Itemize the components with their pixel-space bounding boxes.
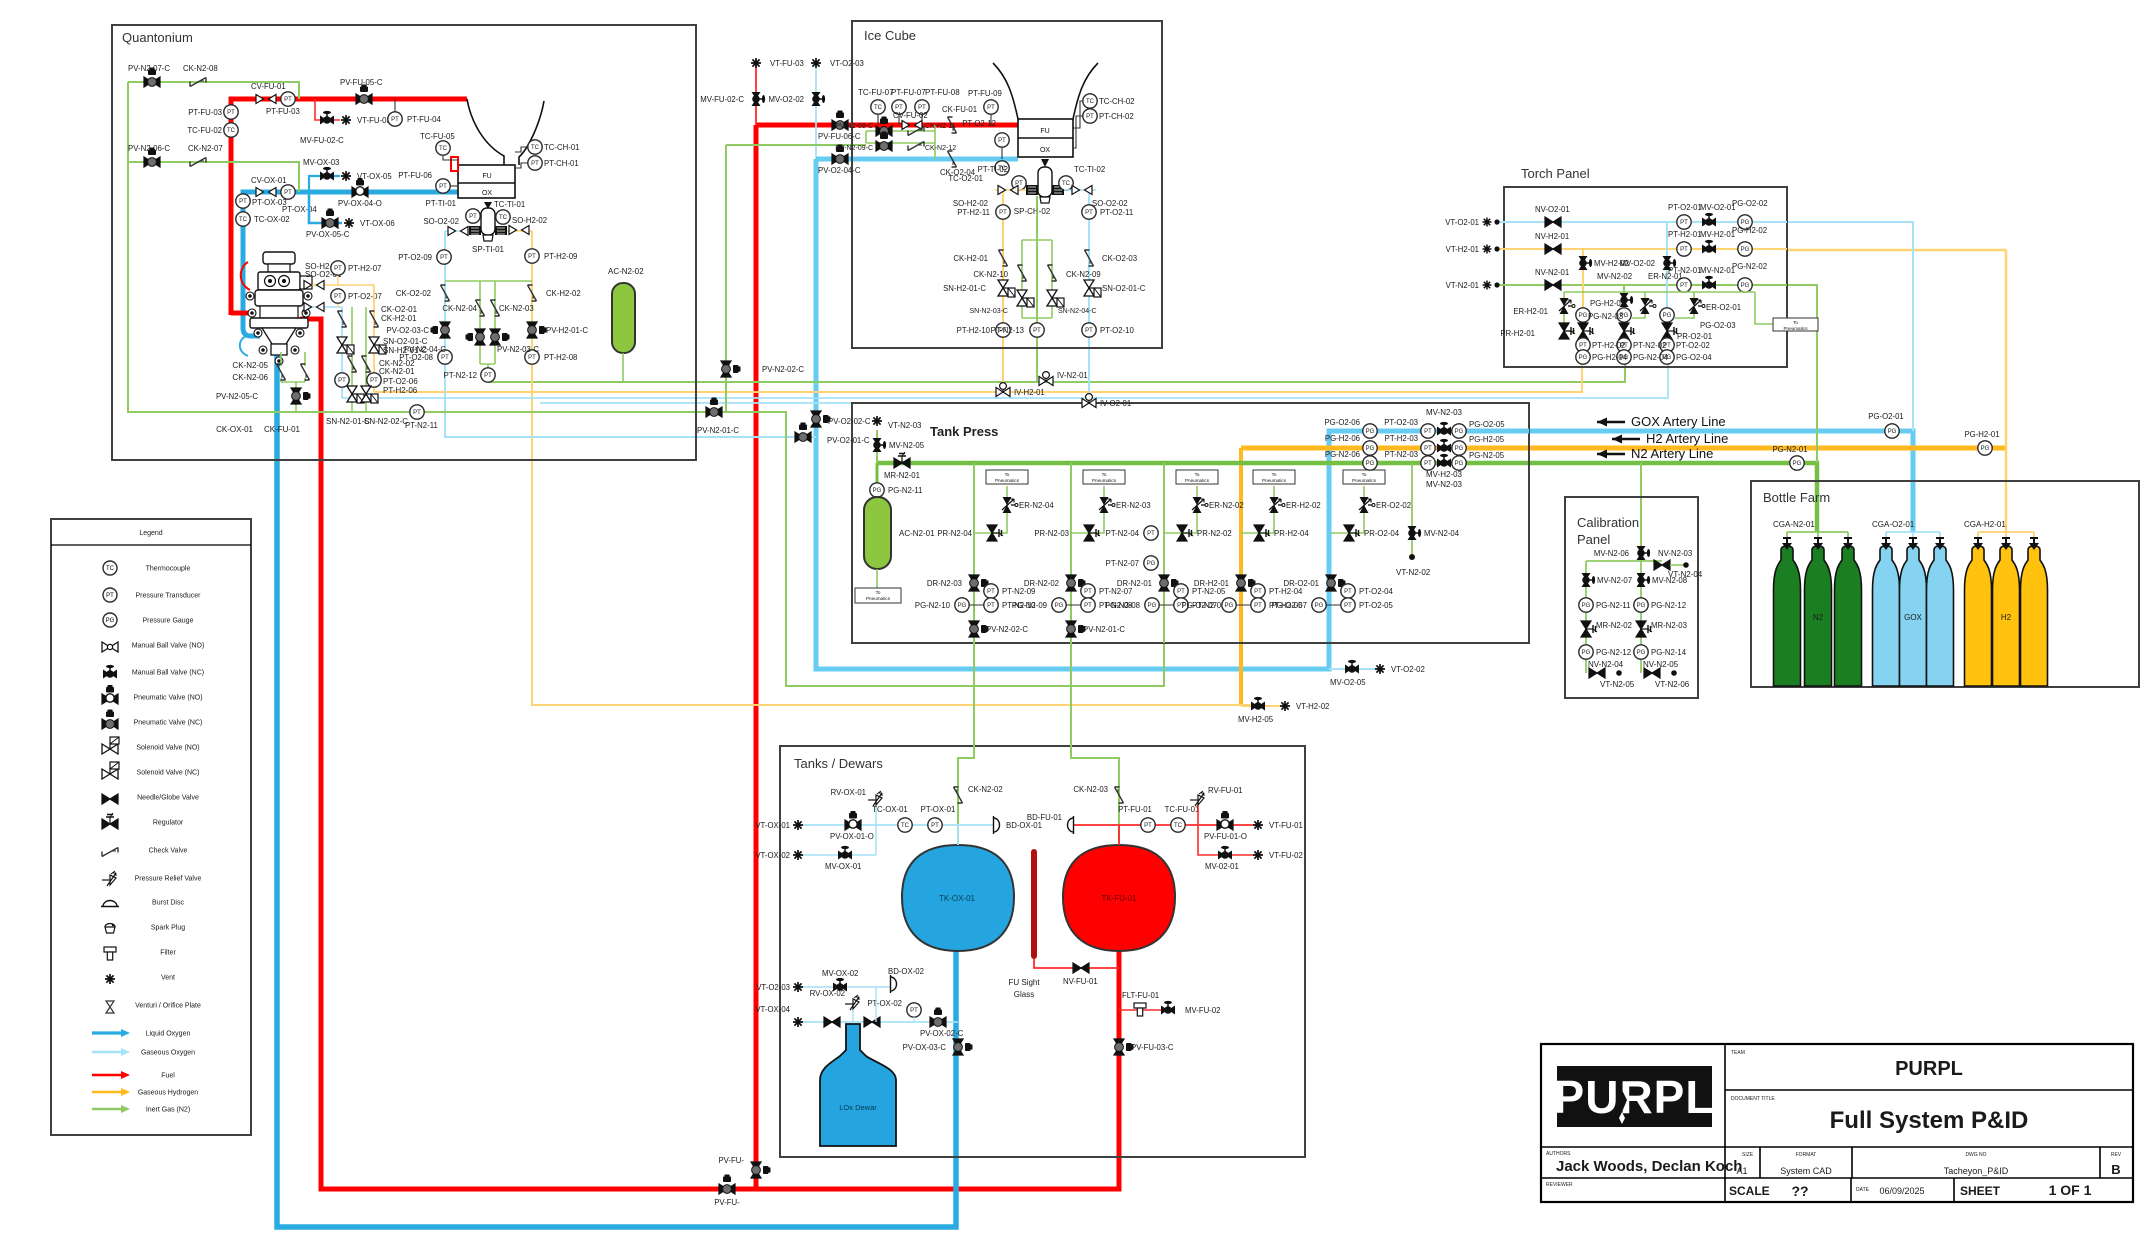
- valve MV-O2-02 torch: [1619, 256, 1676, 270]
- svg-text:PR-O2-04: PR-O2-04: [1364, 529, 1400, 538]
- gauge PG-H2-02: [1732, 226, 1767, 256]
- valve MV-02-01: [1205, 846, 1239, 871]
- vent VT-H2-02: [1280, 701, 1329, 711]
- svg-text:PT: PT: [987, 105, 995, 111]
- svg-text:PT: PT: [284, 97, 292, 103]
- svg-text:MV-O2-02: MV-O2-02: [768, 95, 804, 104]
- transducer PT-H2-04: [1251, 584, 1303, 598]
- check CK-N2-07: [188, 144, 223, 167]
- svg-text:PT: PT: [284, 190, 292, 196]
- svg-text:CK-H2-02: CK-H2-02: [546, 289, 581, 298]
- gauge PG-O2-05: [1452, 420, 1505, 438]
- solenoid SN-N2-02-C: [361, 386, 378, 403]
- svg-text:PT-O2-12: PT-O2-12: [962, 119, 996, 128]
- wire H2 bottle supply: [2005, 250, 2008, 532]
- wire torch O2 row: [1497, 221, 1787, 223]
- enclosure Tank Press: [852, 403, 1529, 643]
- svg-text:PT: PT: [1254, 589, 1262, 595]
- valve MV-N2-02: [1620, 293, 1634, 307]
- valve PV-O2-03-C: [387, 322, 450, 338]
- svg-text:SN-O2-01-C: SN-O2-01-C: [1102, 284, 1146, 293]
- transducer PT-FU-07: [892, 100, 906, 114]
- svg-text:Inert Gas (N2): Inert Gas (N2): [146, 1107, 190, 1114]
- wire AC-N2-01 to pneumatics: [876, 569, 878, 588]
- svg-text:H2 Artery Line: H2 Artery Line: [1646, 431, 1728, 446]
- svg-text:MV-N2-08: MV-N2-08: [1652, 576, 1687, 585]
- valve PV-N2-09-C: [876, 132, 892, 152]
- svg-text:CK-O2-02: CK-O2-02: [396, 289, 431, 298]
- svg-text:CK-H2-01: CK-H2-01: [953, 254, 988, 263]
- solenoid SN-H2-01-C: [943, 280, 1015, 297]
- svg-text:PG: PG: [1793, 461, 1802, 467]
- svg-text:Pneumatics: Pneumatics: [1783, 326, 1808, 331]
- thermocouple TC-CH-02: [1083, 94, 1135, 108]
- legend row Thermocouple: [103, 561, 190, 575]
- gauge PG-N2-05: [1452, 451, 1505, 470]
- transducer PT-FU-09: [968, 89, 1002, 114]
- svg-text:PT: PT: [531, 161, 539, 167]
- check CK-H2-01: [370, 311, 379, 327]
- svg-text:TC: TC: [106, 566, 115, 572]
- svg-text:PT: PT: [528, 355, 536, 361]
- transducer PT-O2-05: [1341, 598, 1394, 612]
- svg-text:CK-N2-01: CK-N2-01: [379, 367, 415, 376]
- svg-text:PT-H2-07: PT-H2-07: [348, 264, 381, 273]
- svg-text:NV-N2-04: NV-N2-04: [1588, 660, 1624, 669]
- svg-text:FU Sight: FU Sight: [1008, 978, 1040, 987]
- svg-text:VT-H2-02: VT-H2-02: [1296, 702, 1329, 711]
- wire GOX Ice Cube inlet: [816, 157, 1018, 162]
- svg-text:Manual Ball Valve (NO): Manual Ball Valve (NO): [132, 643, 205, 650]
- svg-text:PV-O2-03-C: PV-O2-03-C: [387, 326, 430, 335]
- check CK-H2-01 icecube: [953, 250, 1007, 266]
- svg-text:TC-O2-01: TC-O2-01: [948, 174, 983, 183]
- svg-text:TC: TC: [239, 217, 248, 223]
- wire VT-OX-02 stub: [798, 825, 876, 855]
- gauge PG-O2-01: [1868, 412, 1904, 438]
- svg-text:PT-N2-09: PT-N2-09: [1002, 587, 1035, 596]
- gauge PG-N2-06: [1325, 450, 1377, 470]
- svg-text:RV-OX-01: RV-OX-01: [831, 788, 866, 797]
- title block frame: [1541, 1044, 2133, 1202]
- legend title: [51, 544, 251, 546]
- gauge PG-N2-11 tankpress: [870, 483, 923, 497]
- accumulator AC-N2-02: [608, 267, 644, 353]
- svg-text:PT-H2-09: PT-H2-09: [544, 252, 577, 261]
- solenoid SN-H2-01-C quant: [369, 337, 386, 354]
- vent VT-H2-01: [1446, 245, 1500, 255]
- check CK-O2-01: [338, 311, 347, 327]
- wire tank-press leg branch ER-O2-02: [1331, 486, 1364, 533]
- svg-text:PT-N2-07: PT-N2-07: [1099, 587, 1132, 596]
- transducer PT-N2-01: [1668, 266, 1701, 292]
- gauge PG-O2-07: [1271, 598, 1326, 612]
- thermocouple TC-OX-01: [872, 805, 912, 832]
- bottle H2 1: [1965, 538, 1992, 686]
- wire sight glass drain: [1034, 959, 1119, 968]
- regulator MR-N2-03 cal: [1636, 621, 1687, 637]
- svg-text:CGA-O2-01: CGA-O2-01: [1872, 520, 1915, 529]
- svg-text:IV-H2-01: IV-H2-01: [1014, 388, 1045, 397]
- wire GOX torch link: [1787, 222, 1913, 431]
- wire SO-O2-02 icecube link: [1064, 190, 1096, 196]
- gauge PG-N2-10: [915, 598, 969, 612]
- svg-text:PT-OX-04: PT-OX-04: [282, 205, 317, 214]
- svg-text:PV-FU-: PV-FU-: [718, 1156, 744, 1165]
- svg-text:Spark Plug: Spark Plug: [151, 925, 185, 932]
- svg-text:PT: PT: [469, 214, 477, 220]
- valve PV-N2-01-C: [1066, 621, 1125, 637]
- wire TC-FU-05 stub: [443, 156, 458, 160]
- venturi CV-OX-01: [251, 176, 287, 197]
- wire tank-press leg branch ER-H2-02: [1241, 486, 1274, 533]
- svg-text:Regulator: Regulator: [153, 820, 184, 827]
- svg-text:To: To: [1102, 472, 1107, 477]
- valve MV-N2-05: [873, 438, 925, 452]
- svg-text:PT: PT: [1680, 283, 1688, 289]
- legend row Manual Ball Valve (NO): [102, 642, 204, 652]
- svg-text:Legend: Legend: [139, 530, 162, 537]
- thermocouple TC-FU-05: [420, 132, 455, 155]
- transducer PT-OX-02: [867, 999, 921, 1017]
- svg-text:PT-CH-02: PT-CH-02: [1099, 112, 1134, 121]
- wire MV-OX-03 stub: [309, 176, 340, 192]
- check CK-N2-01 quant: [362, 356, 371, 372]
- wire injector purge checks: [281, 352, 305, 412]
- svg-text:PG: PG: [1148, 603, 1157, 609]
- svg-text:SN-N2-02-C: SN-N2-02-C: [364, 417, 408, 426]
- svg-text:PT: PT: [334, 266, 342, 272]
- svg-text:MV-OX-01: MV-OX-01: [825, 862, 861, 871]
- svg-text:MV-H2-01: MV-H2-01: [1700, 230, 1735, 239]
- svg-text:DR-N2-01: DR-N2-01: [1117, 579, 1152, 588]
- svg-text:MV-N2-06: MV-N2-06: [1594, 549, 1629, 558]
- svg-text:MV-O2-05: MV-O2-05: [1330, 678, 1366, 687]
- solenoid SN-N2-01-C: [347, 386, 364, 403]
- svg-text:PT: PT: [484, 373, 492, 379]
- svg-text:PG: PG: [1366, 461, 1375, 467]
- check CK-O2-04: [940, 151, 976, 177]
- svg-text:PT: PT: [1680, 220, 1688, 226]
- wire fuel main Quantonium-to-tank: [321, 318, 1119, 1189]
- relief ER-N2-03: [1099, 497, 1151, 513]
- svg-text:SP-CH-02: SP-CH-02: [1014, 207, 1051, 216]
- svg-text:ER-N2-04: ER-N2-04: [1019, 501, 1054, 510]
- svg-text:MR-N2-03: MR-N2-03: [1651, 621, 1687, 630]
- gauge PG-O2-03: [1660, 308, 1674, 322]
- svg-text:Pneumatic Valve (NO): Pneumatic Valve (NO): [133, 695, 202, 702]
- transducer PT-N2-08: [1081, 598, 1133, 612]
- svg-text:PG-H2-06: PG-H2-06: [1325, 434, 1360, 443]
- check CK-H2-02: [528, 285, 581, 301]
- transducer PT-N2-07: [1081, 584, 1133, 598]
- to-pneumatics box leg ER-N2-03: [1083, 470, 1125, 484]
- filter FLT-FU-01: [1122, 991, 1159, 1016]
- svg-text:AC-N2-01: AC-N2-01: [899, 529, 935, 538]
- vent VT-OX-05: [341, 171, 392, 181]
- svg-text:PT: PT: [106, 593, 114, 599]
- svg-text:Venturi / Orifice Plate: Venturi / Orifice Plate: [135, 1003, 201, 1010]
- svg-text:IV-N2-01: IV-N2-01: [1057, 371, 1088, 380]
- svg-text:PT-FU-03: PT-FU-03: [266, 107, 300, 116]
- svg-text:PT: PT: [1033, 328, 1041, 334]
- burst BD-OX-02: [888, 967, 924, 993]
- svg-text:MV-N2-03: MV-N2-03: [1426, 480, 1463, 489]
- svg-text:NV-N2-03: NV-N2-03: [1658, 549, 1692, 558]
- wire N2 purge rows icecube: [866, 125, 935, 159]
- svg-text:CK-N2-04: CK-N2-04: [442, 304, 477, 313]
- svg-text:PT-O2-10: PT-O2-10: [1100, 326, 1134, 335]
- regulator PR-O2-04: [1344, 525, 1400, 541]
- transducer PT-O2-08: [399, 350, 452, 364]
- svg-text:PT: PT: [1344, 589, 1352, 595]
- vent VT-O2-03 dewar: [756, 982, 803, 992]
- valve NV-N2-03: [1654, 549, 1692, 570]
- wire PT-CH-01 stub: [515, 163, 528, 168]
- svg-text:PG: PG: [1582, 603, 1591, 609]
- vent VT-N2-03: [872, 416, 921, 430]
- wire tank-press leg ER-N2-03: [1070, 463, 1072, 643]
- svg-text:TC-TI-02: TC-TI-02: [1074, 165, 1105, 174]
- svg-text:VT-N2-05: VT-N2-05: [1600, 680, 1635, 689]
- svg-text:PV-FU-03-C: PV-FU-03-C: [1131, 1043, 1174, 1052]
- svg-text:VT-OX-06: VT-OX-06: [360, 219, 395, 228]
- vent VT-FU-03 quantonium: [341, 115, 391, 125]
- transducer PT-N2-05: [1174, 584, 1226, 598]
- wire torch H2 row: [1497, 248, 1787, 250]
- wire GOX row tankpress: [1329, 429, 1529, 434]
- vent VT-N2-01: [1446, 281, 1500, 291]
- svg-text:PT: PT: [1680, 247, 1688, 253]
- svg-text:ER-H2-01: ER-H2-01: [1513, 307, 1548, 316]
- svg-text:TC: TC: [439, 146, 448, 152]
- engine bell Ice Cube: [993, 63, 1098, 119]
- transducer PT-H2-06: [367, 373, 381, 387]
- svg-text:VT-OX-04: VT-OX-04: [755, 1005, 790, 1014]
- gauge PG-O2-07: [1181, 598, 1236, 612]
- svg-text:PT: PT: [987, 603, 995, 609]
- svg-text:GOX Artery Line: GOX Artery Line: [1631, 414, 1726, 429]
- svg-text:Torch Panel: Torch Panel: [1521, 166, 1590, 181]
- gauge PG-N2-03: [1617, 308, 1631, 322]
- svg-text:PT: PT: [1344, 603, 1352, 609]
- svg-text:Full System P&ID: Full System P&ID: [1830, 1107, 2029, 1134]
- svg-text:PT-N2-02: PT-N2-02: [1633, 341, 1666, 350]
- svg-text:Pneumatics: Pneumatics: [1352, 478, 1377, 483]
- svg-text:DR-O2-01: DR-O2-01: [1283, 579, 1319, 588]
- transducer PT-FU-01: [1118, 805, 1155, 832]
- svg-text:PT: PT: [987, 589, 995, 595]
- svg-text:Solenoid Valve (NO): Solenoid Valve (NO): [136, 745, 199, 752]
- enclosure Torch Panel: [1504, 187, 1787, 367]
- svg-text:PT-OX-01: PT-OX-01: [921, 805, 956, 814]
- svg-text:AC-N2-02: AC-N2-02: [608, 267, 644, 276]
- regulator PR-N2-04: [937, 525, 1003, 541]
- svg-text:CK-O2-01: CK-O2-01: [381, 305, 418, 314]
- legend row Check Valve: [102, 848, 187, 857]
- svg-text:Pneumatics: Pneumatics: [995, 478, 1020, 483]
- wire tank-press leg ER-N2-02: [1163, 463, 1165, 643]
- svg-text:REV: REV: [2111, 1152, 2122, 1158]
- legend row Needle/Globe Valve: [102, 794, 199, 804]
- regulator PR-N2-03: [1034, 525, 1100, 541]
- gauge PG-N2-11 cal: [1579, 598, 1631, 612]
- svg-text:CK-N2-03: CK-N2-03: [499, 304, 534, 313]
- wire dewar top line: [798, 1021, 958, 1023]
- svg-text:TC-FU-07: TC-FU-07: [858, 88, 894, 97]
- valve PV-N2-03-C: [490, 329, 539, 354]
- gauge PG-N2-09: [1012, 598, 1066, 612]
- wire cal panel tree: [1586, 553, 1662, 673]
- check CK-O2-03: [1085, 250, 1138, 266]
- svg-text:VT-FU-01: VT-FU-01: [1269, 821, 1303, 830]
- svg-text:PT-O2-09: PT-O2-09: [398, 253, 432, 262]
- svg-text:Pneumatics: Pneumatics: [1262, 478, 1287, 483]
- wire RV-FU-01 stub: [1197, 805, 1199, 825]
- wire fuel Ice Cube feed: [754, 125, 759, 1189]
- svg-text:PT-N2-04: PT-N2-04: [1106, 529, 1140, 538]
- svg-text:VT-N2-02: VT-N2-02: [1396, 568, 1431, 577]
- wire tank-press leg branch ER-N2-04: [974, 486, 1007, 533]
- svg-text:CV-FU-01: CV-FU-01: [251, 82, 286, 91]
- svg-text:Vent: Vent: [161, 975, 175, 982]
- wire fuel Ice Cube top horizontal: [756, 123, 1018, 128]
- solenoid SN-O2-01-C ice: [1084, 280, 1146, 297]
- svg-text:SIZE: SIZE: [1742, 1152, 1754, 1158]
- svg-text:GOX: GOX: [1904, 613, 1922, 622]
- svg-text:VT-OX-01: VT-OX-01: [755, 821, 790, 830]
- regulator MR-N2-02 cal: [1581, 621, 1632, 637]
- svg-text:??: ??: [1791, 1183, 1808, 1199]
- svg-text:PV-N2-01-C: PV-N2-01-C: [1083, 625, 1125, 634]
- svg-text:Pressure Gauge: Pressure Gauge: [143, 618, 194, 625]
- svg-text:ER-H2-02: ER-H2-02: [1286, 501, 1321, 510]
- legend row Manual Ball Valve (NC): [103, 665, 204, 679]
- svg-text:NV-H2-01: NV-H2-01: [1535, 232, 1569, 241]
- svg-text:SP-TI-01: SP-TI-01: [472, 245, 505, 254]
- svg-text:CV-OX-01: CV-OX-01: [251, 176, 287, 185]
- svg-text:PV-OX-04-O: PV-OX-04-O: [338, 199, 382, 208]
- valve PV-FU- vertical: [718, 1156, 770, 1178]
- svg-text:PG-N2-04: PG-N2-04: [1633, 353, 1669, 362]
- legend row Regulator: [102, 813, 184, 829]
- svg-text:MV-O2-02: MV-O2-02: [1619, 259, 1655, 268]
- transducer PT-H2-08: [525, 350, 578, 364]
- wire LOx main Quantonium-to-tank: [277, 350, 956, 1227]
- svg-text:Pressure Relief Valve: Pressure Relief Valve: [135, 876, 202, 883]
- valve NV-N2-05 cal: [1644, 668, 1660, 678]
- svg-text:H2: H2: [2001, 613, 2012, 622]
- valve dewar left: [824, 1017, 840, 1027]
- burst BD-OX-01: [994, 816, 1042, 834]
- svg-text:TC: TC: [1062, 181, 1071, 187]
- svg-text:PT-H2-02: PT-H2-02: [1592, 341, 1625, 350]
- svg-text:MV-H2-05: MV-H2-05: [1238, 715, 1274, 724]
- svg-text:PG-N2-01: PG-N2-01: [1772, 445, 1807, 454]
- svg-text:PG: PG: [873, 488, 882, 494]
- svg-text:MV-N2-07: MV-N2-07: [1597, 576, 1632, 585]
- label H2 Artery Line: [1612, 431, 1728, 446]
- svg-text:Pneumatics: Pneumatics: [1092, 478, 1117, 483]
- check CK-N2-06: [301, 364, 310, 380]
- wire fuel injector inlet: [231, 311, 256, 316]
- svg-text:Filter: Filter: [160, 950, 176, 957]
- svg-text:PT-H2-01: PT-H2-01: [1668, 230, 1701, 239]
- wire manifold CGA-N2-01: [1787, 532, 1848, 543]
- to-pneumatics box leg ER-N2-02: [1176, 470, 1218, 484]
- svg-text:PT: PT: [1086, 114, 1094, 120]
- legend arrow Inert Gas (N2): [92, 1105, 190, 1114]
- transducer PT-H2-07: [331, 261, 382, 275]
- svg-text:CGA-H2-01: CGA-H2-01: [1964, 520, 2006, 529]
- engine chamber Ice Cube: [1018, 119, 1073, 157]
- check CK-N2-10: [973, 265, 1026, 281]
- svg-text:PT: PT: [1084, 603, 1092, 609]
- svg-text:VT-N2-06: VT-N2-06: [1655, 680, 1690, 689]
- vent VT-FU-02: [1253, 850, 1303, 860]
- check CK-N2-12: [908, 142, 924, 151]
- svg-text:06/09/2025: 06/09/2025: [1879, 1186, 1924, 1196]
- svg-text:PG: PG: [1741, 283, 1750, 289]
- check CK-N2-04: [442, 300, 484, 316]
- svg-text:Quantonium: Quantonium: [122, 30, 193, 45]
- thermocouple TC-TI-02: [1059, 165, 1105, 190]
- svg-text:PT-FU-01: PT-FU-01: [1118, 805, 1152, 814]
- vent VT-OX-01: [755, 820, 803, 830]
- wire N2 rail top row: [128, 82, 299, 99]
- svg-text:PT: PT: [528, 254, 536, 260]
- wire PV-OX-05-C stub: [309, 192, 342, 223]
- wire fuel injector outlet: [300, 319, 321, 330]
- regulator MR-N2-01: [884, 452, 920, 480]
- transducer PT-O2-02: [1660, 338, 1674, 352]
- svg-text:Thermocouple: Thermocouple: [146, 566, 191, 573]
- valve NV-FU-01: [1063, 963, 1098, 986]
- wire manifold CGA-H2-01: [1978, 532, 2034, 543]
- wire H2 artery: [1241, 446, 2006, 451]
- dot VT-N2-02: [1409, 554, 1415, 560]
- vent VT-OX-02: [755, 850, 803, 860]
- svg-text:OX: OX: [482, 190, 492, 197]
- transducer PT-N2-13: [991, 323, 1045, 337]
- svg-text:MV-N2-02: MV-N2-02: [1597, 272, 1632, 281]
- svg-text:MR-N2-02: MR-N2-02: [1596, 621, 1632, 630]
- wire torch H2 drop: [1582, 249, 1584, 364]
- svg-text:PT-H2-04: PT-H2-04: [1269, 587, 1303, 596]
- transducer PT-H2-03: [1385, 434, 1436, 455]
- svg-text:PT-H2-03: PT-H2-03: [1385, 434, 1418, 443]
- svg-text:PT: PT: [1085, 210, 1093, 216]
- svg-text:SN-N2-03-C: SN-N2-03-C: [969, 308, 1008, 315]
- svg-text:MV-02-01: MV-02-01: [1205, 862, 1239, 871]
- wire LOx engine feed: [243, 192, 515, 240]
- wire GOX purge line long: [342, 364, 1668, 403]
- svg-text:SO-H2-02: SO-H2-02: [512, 216, 547, 225]
- wire N2 inlet riser: [876, 430, 878, 463]
- transducer PT-O2-09: [398, 250, 451, 264]
- legend box: [51, 519, 251, 1135]
- label N2 Artery Line: [1597, 446, 1713, 461]
- wire H2 vent stub at 1241: [1241, 705, 1285, 707]
- relief ER-N2-02: [1192, 497, 1244, 513]
- svg-text:TC-FU-05: TC-FU-05: [420, 132, 455, 141]
- check CK-N2-05: [277, 364, 286, 380]
- svg-text:PG: PG: [1663, 313, 1672, 319]
- svg-text:ER-N2-01: ER-N2-01: [1648, 272, 1683, 281]
- wire H2 torch link: [1787, 249, 2006, 252]
- svg-text:PT: PT: [1147, 531, 1155, 537]
- vent VT-FU-01: [1253, 820, 1303, 830]
